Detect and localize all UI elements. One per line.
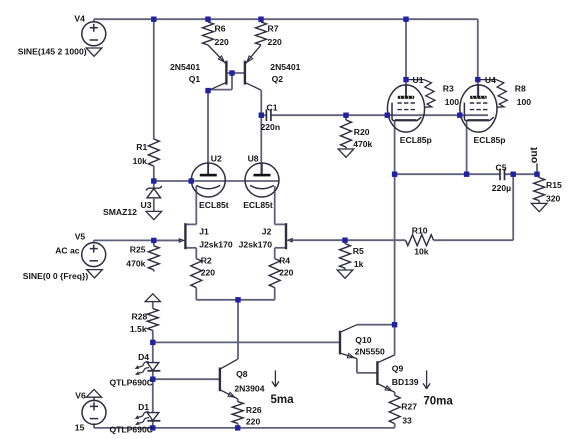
- svg-text:C5: C5: [496, 162, 507, 172]
- svg-text:220n: 220n: [261, 122, 281, 132]
- svg-text:R25: R25: [130, 245, 146, 255]
- svg-text:R15: R15: [546, 180, 562, 190]
- svg-text:220µ: 220µ: [492, 183, 511, 193]
- svg-text:1k: 1k: [354, 259, 364, 269]
- svg-text:220: 220: [279, 268, 294, 278]
- svg-text:470k: 470k: [126, 259, 145, 269]
- svg-text:Q8: Q8: [236, 369, 248, 379]
- svg-text:R4: R4: [279, 256, 290, 266]
- svg-text:BD139: BD139: [392, 377, 419, 387]
- svg-text:320: 320: [546, 194, 561, 204]
- svg-text:V4: V4: [74, 14, 85, 24]
- svg-text:Q2: Q2: [272, 74, 284, 84]
- svg-text:R7: R7: [268, 24, 279, 34]
- svg-text:SINE(0 0 {Freq}): SINE(0 0 {Freq}): [23, 271, 89, 281]
- svg-text:R28: R28: [132, 312, 148, 322]
- svg-text:U2: U2: [211, 153, 222, 163]
- svg-text:D1: D1: [138, 402, 149, 412]
- svg-text:SINE(145 2 1000): SINE(145 2 1000): [18, 46, 87, 56]
- svg-text:R6: R6: [215, 24, 226, 34]
- svg-text:ECL85t: ECL85t: [199, 200, 229, 210]
- svg-text:100: 100: [517, 97, 532, 107]
- svg-text:R27: R27: [401, 401, 417, 411]
- svg-text:R10: R10: [412, 226, 428, 236]
- svg-text:R3: R3: [443, 83, 454, 93]
- svg-text:2N5401: 2N5401: [170, 62, 200, 72]
- svg-text:D4: D4: [138, 352, 149, 362]
- svg-text:V6: V6: [75, 391, 86, 401]
- svg-text:15: 15: [75, 423, 85, 433]
- svg-text:ECL85p: ECL85p: [400, 135, 432, 145]
- svg-text:5ma: 5ma: [271, 394, 295, 406]
- svg-text:R26: R26: [246, 405, 262, 415]
- svg-text:R1: R1: [136, 142, 147, 152]
- svg-text:out: out: [528, 146, 540, 163]
- svg-text:QTLP690C: QTLP690C: [110, 378, 153, 388]
- svg-text:C1: C1: [267, 102, 278, 112]
- svg-text:U4: U4: [485, 75, 496, 85]
- svg-text:U1: U1: [413, 75, 424, 85]
- svg-text:J2sk170: J2sk170: [199, 239, 233, 249]
- svg-text:2N5401: 2N5401: [270, 62, 300, 72]
- svg-text:70ma: 70ma: [423, 396, 453, 408]
- svg-text:1.5k: 1.5k: [130, 324, 147, 334]
- svg-text:U8: U8: [248, 153, 259, 163]
- svg-text:2N5550: 2N5550: [355, 347, 385, 357]
- svg-text:ECL85t: ECL85t: [243, 200, 273, 210]
- svg-text:Q10: Q10: [355, 335, 371, 345]
- svg-text:220: 220: [246, 417, 261, 427]
- svg-text:10k: 10k: [414, 247, 429, 257]
- svg-text:J1: J1: [199, 227, 209, 237]
- svg-text:220: 220: [268, 37, 283, 47]
- svg-text:Q1: Q1: [189, 74, 201, 84]
- svg-text:U3: U3: [141, 200, 152, 210]
- svg-text:470k: 470k: [353, 139, 372, 149]
- svg-text:J2: J2: [262, 227, 272, 237]
- svg-text:R5: R5: [353, 246, 364, 256]
- svg-text:AC ac: AC ac: [55, 245, 80, 255]
- svg-text:R20: R20: [354, 127, 370, 137]
- svg-text:220: 220: [215, 37, 230, 47]
- svg-text:SMAZ12: SMAZ12: [103, 207, 137, 217]
- svg-text:R8: R8: [515, 83, 526, 93]
- svg-text:J2sk170: J2sk170: [239, 239, 273, 249]
- svg-text:33: 33: [402, 416, 412, 426]
- svg-text:QTLP690C: QTLP690C: [110, 425, 153, 435]
- svg-text:V5: V5: [75, 231, 86, 241]
- svg-text:Q9: Q9: [392, 363, 404, 373]
- svg-text:100: 100: [445, 97, 460, 107]
- svg-text:2N3904: 2N3904: [234, 384, 264, 394]
- svg-text:ECL85p: ECL85p: [474, 135, 506, 145]
- svg-text:R2: R2: [201, 256, 212, 266]
- svg-text:220: 220: [201, 268, 216, 278]
- svg-text:10k: 10k: [133, 156, 148, 166]
